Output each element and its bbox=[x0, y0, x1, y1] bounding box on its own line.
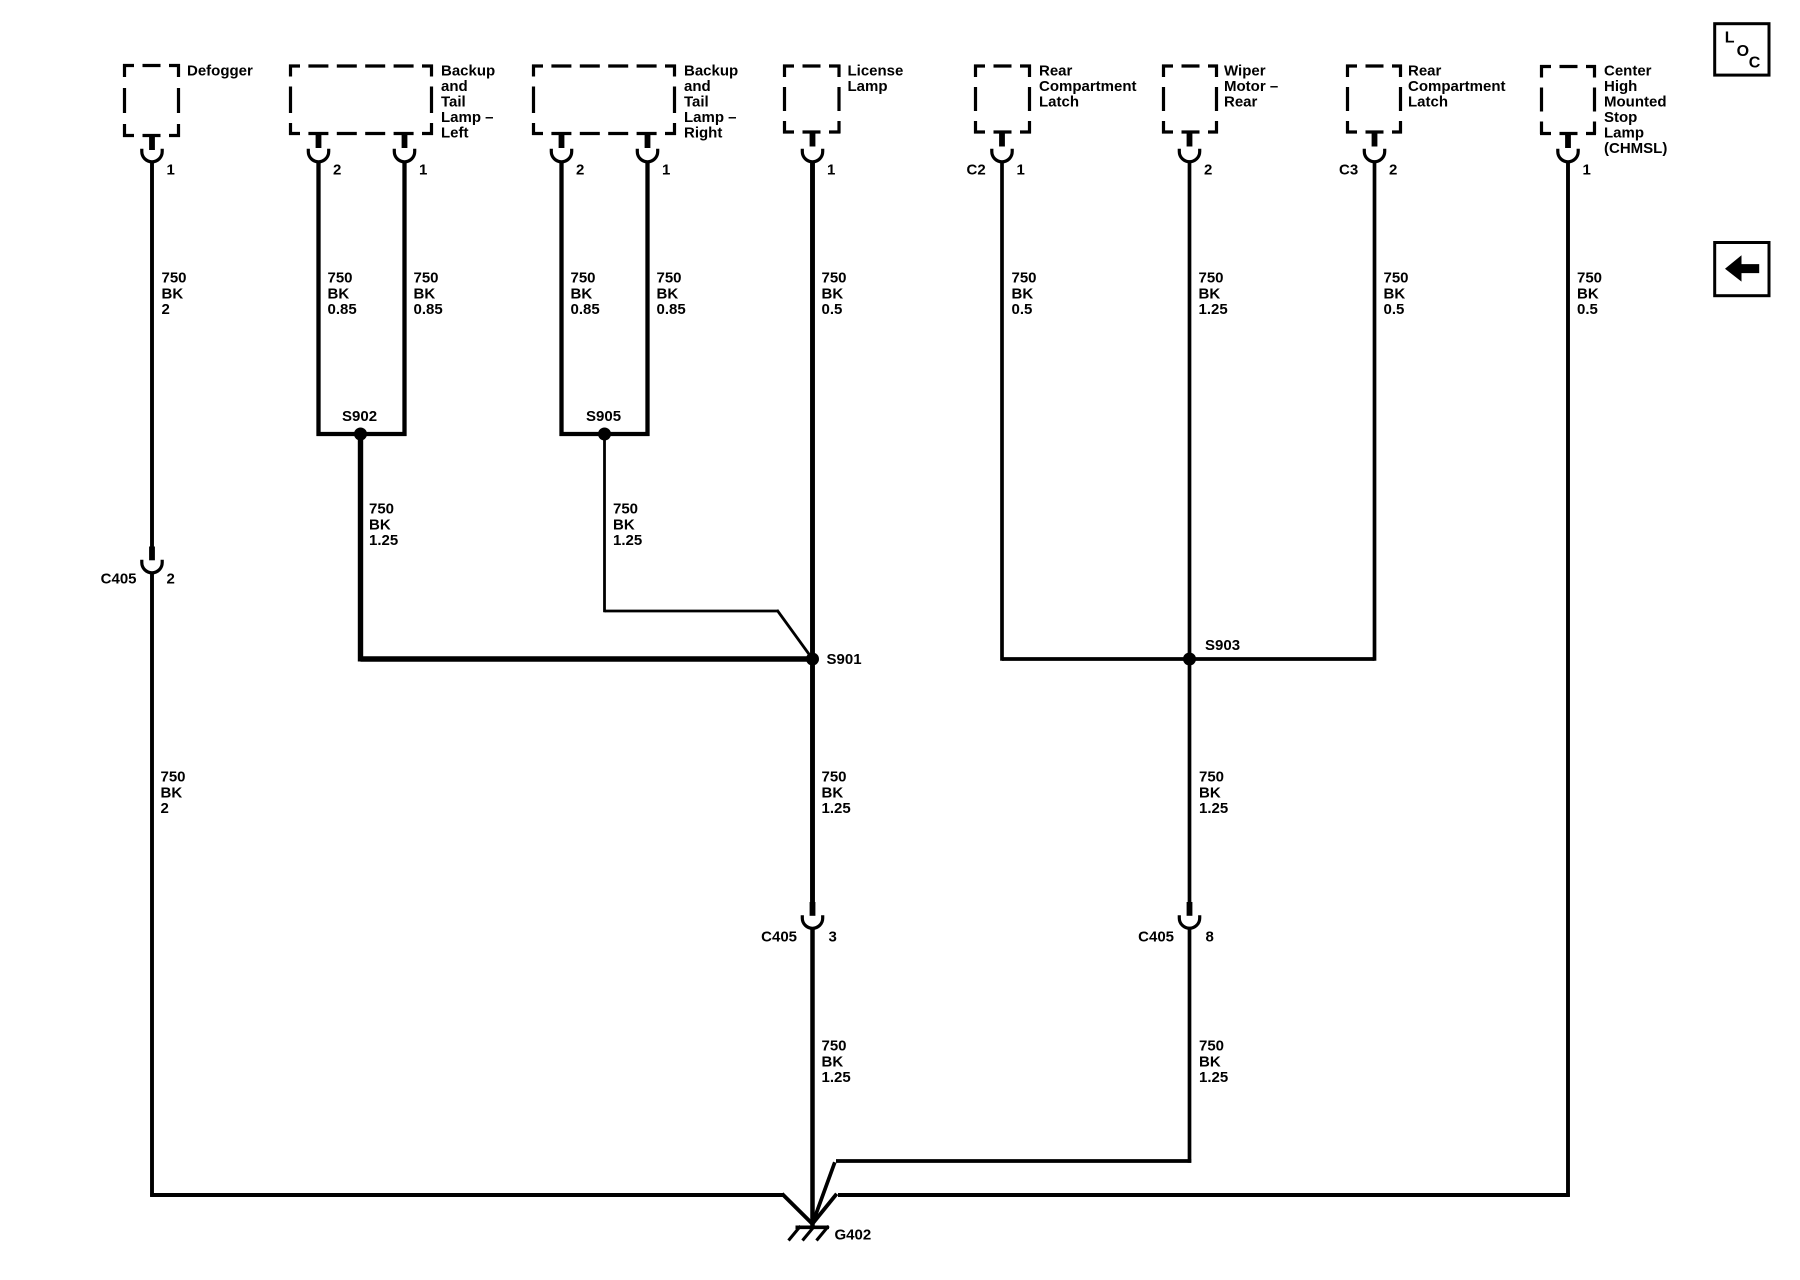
wire: Defogger pin1 down to C405-2 bbox=[150, 162, 154, 547]
component box: Rear Compartment Latch (C3) bbox=[1346, 65, 1402, 134]
wire: S905 across bbox=[605, 610, 779, 613]
svg-text:and: and bbox=[441, 78, 468, 95]
wire: S903 tie bar bbox=[1002, 657, 1375, 661]
svg-text:2: 2 bbox=[161, 800, 169, 817]
svg-text:Stop: Stop bbox=[1604, 109, 1637, 126]
svg-text:750: 750 bbox=[1384, 270, 1409, 287]
wire: Latch C2 pin1 down to S903 bbox=[1000, 162, 1004, 661]
svg-text:BK: BK bbox=[161, 784, 183, 801]
svg-text:High: High bbox=[1604, 78, 1637, 95]
svg-text:S903: S903 bbox=[1205, 637, 1240, 654]
svg-text:0.85: 0.85 bbox=[328, 301, 357, 318]
connector C405 pin 3 (inline) bbox=[802, 902, 822, 928]
svg-text:3: 3 bbox=[829, 929, 837, 946]
svg-text:S905: S905 bbox=[586, 408, 621, 425]
svg-text:1.25: 1.25 bbox=[1199, 800, 1228, 817]
svg-text:C405: C405 bbox=[761, 929, 797, 946]
svg-text:BK: BK bbox=[1577, 285, 1599, 302]
wire label 750 BK 0.85 (BTL-L pin2) bbox=[328, 270, 357, 319]
pin 1 of Defogger bbox=[142, 136, 162, 162]
svg-text:Center: Center bbox=[1604, 63, 1652, 80]
wire label 750 BK 0.85 (BTL-R pin2) bbox=[571, 270, 600, 319]
wire: S905 tie bar bbox=[560, 432, 650, 436]
svg-text:C2: C2 bbox=[967, 162, 986, 179]
wire: diagonal into ground G402 from left bbox=[782, 1194, 812, 1224]
wire: Latch C3 pin2 down to S903 bbox=[1373, 162, 1377, 661]
pin 1 of Backup/Tail Lamp Right bbox=[637, 134, 657, 162]
svg-text:0.5: 0.5 bbox=[1384, 301, 1405, 318]
wire: CHMSL run across to ground bbox=[838, 1193, 1570, 1197]
pin 2 of Backup/Tail Lamp Left bbox=[308, 134, 328, 162]
svg-text:2: 2 bbox=[576, 162, 584, 179]
svg-text:1.25: 1.25 bbox=[1199, 1069, 1228, 1086]
svg-text:750: 750 bbox=[822, 769, 847, 786]
wire label 750 BK 1.25 (C405-3 to ground) bbox=[822, 1038, 851, 1087]
svg-text:Motor –: Motor – bbox=[1224, 78, 1278, 95]
svg-text:750: 750 bbox=[1199, 1038, 1224, 1055]
svg-text:750: 750 bbox=[1199, 769, 1224, 786]
svg-text:S902: S902 bbox=[342, 408, 377, 425]
wire: C405-2 down to bottom run bbox=[150, 574, 154, 1197]
svg-text:BK: BK bbox=[1012, 285, 1034, 302]
label License Lamp bbox=[848, 63, 904, 96]
wire: CHMSL pin1 down bbox=[1566, 162, 1570, 1197]
svg-text:1: 1 bbox=[1017, 162, 1025, 179]
component box: Backup and Tail Lamp - Right bbox=[532, 65, 676, 136]
svg-text:2: 2 bbox=[162, 301, 170, 318]
svg-text:S901: S901 bbox=[827, 651, 862, 668]
svg-text:License: License bbox=[848, 63, 904, 80]
wire label 750 BK 1.25 (S902) bbox=[369, 501, 398, 550]
svg-text:Lamp –: Lamp – bbox=[441, 109, 494, 126]
svg-text:Right: Right bbox=[684, 125, 722, 142]
wire label 750 BK 1.25 (S903 to C405-8) bbox=[1199, 769, 1228, 818]
svg-text:2: 2 bbox=[167, 571, 175, 588]
svg-text:0.85: 0.85 bbox=[657, 301, 686, 318]
pin 2 of Rear Compartment Latch C3 bbox=[1364, 132, 1384, 162]
svg-text:750: 750 bbox=[1199, 270, 1224, 287]
svg-text:C405: C405 bbox=[1138, 929, 1174, 946]
connector C405 pin 2 (inline) bbox=[142, 547, 162, 573]
svg-text:750: 750 bbox=[571, 270, 596, 287]
svg-text:750: 750 bbox=[369, 501, 394, 518]
svg-text:C405: C405 bbox=[101, 571, 137, 588]
svg-text:1: 1 bbox=[167, 162, 175, 179]
wire label 750 BK 0.5 (CHMSL) bbox=[1577, 270, 1602, 319]
wire: BTL-R pin2 down to S905 bbox=[559, 162, 563, 437]
svg-text:750: 750 bbox=[822, 1038, 847, 1055]
wire: diagonal into ground from C405-8 run bbox=[813, 1162, 835, 1222]
svg-text:BK: BK bbox=[369, 516, 391, 533]
svg-text:8: 8 bbox=[1206, 929, 1214, 946]
svg-text:and: and bbox=[684, 78, 711, 95]
component box: Defogger bbox=[123, 64, 180, 137]
svg-text:750: 750 bbox=[613, 501, 638, 518]
svg-text:C: C bbox=[1749, 54, 1761, 71]
svg-text:BK: BK bbox=[1199, 285, 1221, 302]
wire: BTL-R pin1 down to S905 bbox=[645, 162, 649, 437]
splice S905 junction dot bbox=[598, 428, 611, 441]
wire: C405-3 down to ground G402 bbox=[810, 929, 815, 1226]
svg-text:Tail: Tail bbox=[441, 94, 466, 111]
pin 1 of Rear Compartment Latch C2 bbox=[992, 132, 1012, 162]
pin 1 of CHMSL bbox=[1558, 134, 1578, 162]
svg-text:BK: BK bbox=[162, 285, 184, 302]
wire label 750 BK 0.5 (Latch C3) bbox=[1384, 270, 1409, 319]
svg-text:0.5: 0.5 bbox=[1012, 301, 1033, 318]
ground G402 symbol bbox=[789, 1226, 830, 1241]
svg-text:2: 2 bbox=[333, 162, 341, 179]
svg-text:Rear: Rear bbox=[1408, 63, 1442, 80]
wire: diagonal into ground from CHMSL run bbox=[813, 1194, 837, 1223]
wire: BTL-L pin2 down to S902 bbox=[316, 162, 320, 437]
svg-text:Mounted: Mounted bbox=[1604, 94, 1666, 111]
pin 2 of Wiper Motor Rear bbox=[1179, 132, 1199, 162]
svg-text:Wiper: Wiper bbox=[1224, 63, 1266, 80]
splice S901 junction dot bbox=[806, 653, 819, 666]
svg-text:BK: BK bbox=[657, 285, 679, 302]
wire label 750 BK 1.25 (Wiper) bbox=[1199, 270, 1228, 319]
svg-text:L: L bbox=[1725, 30, 1735, 47]
svg-text:1.25: 1.25 bbox=[369, 532, 398, 549]
label CHMSL bbox=[1604, 63, 1667, 158]
svg-text:750: 750 bbox=[657, 270, 682, 287]
component box: Rear Compartment Latch (C2) bbox=[974, 65, 1031, 134]
svg-text:750: 750 bbox=[822, 270, 847, 287]
svg-text:1: 1 bbox=[1583, 162, 1591, 179]
svg-text:O: O bbox=[1737, 43, 1749, 60]
svg-text:1.25: 1.25 bbox=[1199, 301, 1228, 318]
wire: C405-8 down bbox=[1188, 929, 1192, 1163]
svg-text:0.85: 0.85 bbox=[571, 301, 600, 318]
wire label 750 BK 0.85 (BTL-R pin1) bbox=[657, 270, 686, 319]
wire: bottom run from Defogger to ground bbox=[150, 1193, 783, 1197]
label Backup and Tail Lamp - Left bbox=[441, 63, 495, 142]
svg-text:1: 1 bbox=[662, 162, 670, 179]
svg-text:Backup: Backup bbox=[441, 63, 495, 80]
svg-text:1: 1 bbox=[827, 162, 835, 179]
wire label 750 BK 0.85 (BTL-L pin1) bbox=[414, 270, 443, 319]
svg-text:G402: G402 bbox=[835, 1227, 872, 1244]
svg-text:1.25: 1.25 bbox=[613, 532, 642, 549]
svg-text:Rear: Rear bbox=[1224, 94, 1258, 111]
pin 2 of Backup/Tail Lamp Right bbox=[551, 134, 571, 162]
svg-text:Compartment: Compartment bbox=[1408, 78, 1506, 95]
svg-text:750: 750 bbox=[161, 769, 186, 786]
svg-text:750: 750 bbox=[162, 270, 187, 287]
svg-text:BK: BK bbox=[822, 1053, 844, 1070]
svg-text:BK: BK bbox=[414, 285, 436, 302]
svg-text:BK: BK bbox=[571, 285, 593, 302]
svg-text:BK: BK bbox=[822, 285, 844, 302]
wire label 750 BK 2 (Defogger) bbox=[162, 270, 187, 319]
svg-text:Defogger: Defogger bbox=[187, 63, 253, 80]
wire label 750 BK 1.25 (S905) bbox=[613, 501, 642, 550]
wire: S905 diagonal to S901 bbox=[777, 610, 813, 659]
svg-text:1.25: 1.25 bbox=[822, 800, 851, 817]
splice S903 junction dot bbox=[1183, 653, 1196, 666]
wire: S902 tie bar bbox=[317, 432, 407, 436]
wire: S902 across to S901 bbox=[361, 656, 813, 661]
svg-text:(CHMSL): (CHMSL) bbox=[1604, 140, 1667, 157]
label Rear Compartment Latch bbox=[1039, 63, 1137, 111]
svg-text:Lamp: Lamp bbox=[848, 78, 888, 95]
svg-text:BK: BK bbox=[613, 516, 635, 533]
wire: BTL-L pin1 down to S902 bbox=[402, 162, 406, 437]
svg-text:Lamp: Lamp bbox=[1604, 125, 1644, 142]
component box: License Lamp bbox=[783, 65, 841, 134]
svg-text:Backup: Backup bbox=[684, 63, 738, 80]
pin 1 of Backup/Tail Lamp Left bbox=[394, 134, 414, 162]
connector C405 pin 8 (inline) bbox=[1179, 902, 1199, 928]
svg-text:Latch: Latch bbox=[1408, 94, 1448, 111]
component box: Backup and Tail Lamp - Left bbox=[289, 65, 433, 136]
wire label 750 BK 2 (lower Defogger) bbox=[161, 769, 186, 818]
wire: C405-8 run across to ground bbox=[836, 1159, 1191, 1163]
svg-text:Left: Left bbox=[441, 125, 469, 142]
label Backup and Tail Lamp - Right bbox=[684, 63, 738, 142]
svg-text:Latch: Latch bbox=[1039, 94, 1079, 111]
svg-text:0.5: 0.5 bbox=[822, 301, 843, 318]
svg-text:BK: BK bbox=[1199, 1053, 1221, 1070]
svg-text:BK: BK bbox=[1199, 784, 1221, 801]
pin 1 of License Lamp bbox=[802, 132, 822, 162]
wire: Wiper Motor down through S903 to C405-8 bbox=[1188, 162, 1192, 903]
svg-text:BK: BK bbox=[328, 285, 350, 302]
wire label 750 BK 1.25 (S901 to C405-3) bbox=[822, 769, 851, 818]
label Rear Compartment Latch 2 bbox=[1408, 63, 1506, 111]
svg-text:BK: BK bbox=[1384, 285, 1406, 302]
svg-text:Compartment: Compartment bbox=[1039, 78, 1137, 95]
wire: License Lamp down through S901 to C405-3 bbox=[810, 162, 815, 903]
wire label 750 BK 0.5 (Latch C2) bbox=[1012, 270, 1037, 319]
svg-text:750: 750 bbox=[328, 270, 353, 287]
svg-text:1.25: 1.25 bbox=[822, 1069, 851, 1086]
svg-text:Lamp –: Lamp – bbox=[684, 109, 737, 126]
label Wiper Motor - Rear bbox=[1224, 63, 1278, 111]
svg-text:2: 2 bbox=[1389, 162, 1397, 179]
svg-text:Tail: Tail bbox=[684, 94, 709, 111]
left arrow navigation box bbox=[1715, 243, 1769, 296]
component box: Center High Mounted Stop Lamp (CHMSL) bbox=[1540, 65, 1596, 135]
wire: S905 down bbox=[603, 434, 606, 612]
svg-text:2: 2 bbox=[1204, 162, 1212, 179]
svg-text:750: 750 bbox=[414, 270, 439, 287]
svg-text:750: 750 bbox=[1577, 270, 1602, 287]
wire: S902 down bbox=[358, 434, 363, 662]
splice S902 junction dot bbox=[354, 428, 367, 441]
wire label 750 BK 0.5 (License) bbox=[822, 270, 847, 319]
svg-text:C3: C3 bbox=[1339, 162, 1358, 179]
component box: Wiper Motor - Rear bbox=[1162, 65, 1218, 134]
svg-text:0.5: 0.5 bbox=[1577, 301, 1598, 318]
wire label 750 BK 1.25 (C405-8 to ground) bbox=[1199, 1038, 1228, 1087]
svg-text:0.85: 0.85 bbox=[414, 301, 443, 318]
svg-text:1: 1 bbox=[419, 162, 427, 179]
svg-text:BK: BK bbox=[822, 784, 844, 801]
svg-text:750: 750 bbox=[1012, 270, 1037, 287]
LOC reference box bbox=[1715, 24, 1769, 75]
svg-text:Rear: Rear bbox=[1039, 63, 1073, 80]
